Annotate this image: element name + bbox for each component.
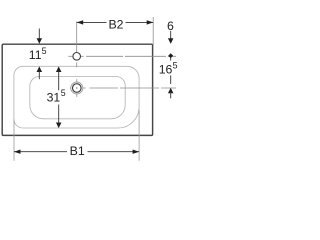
- svg-text:B1: B1: [70, 144, 85, 158]
- svg-text:B2: B2: [108, 18, 123, 32]
